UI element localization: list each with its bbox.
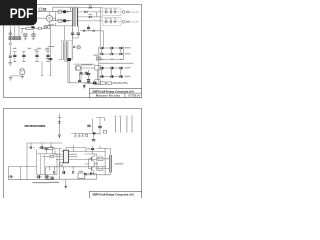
capacitor C42 (dark blob on bus): [93, 132, 95, 134]
wire (dashed separator in output stage): [117, 9, 119, 25]
node labels (diode designators): [89, 5, 92, 15]
connector J4 (header pins, four vertical stubs): [116, 117, 133, 132]
diode D1 (output rectifier): [89, 6, 92, 9]
node label (IC designator text): [81, 64, 92, 65]
node label OUT +35V: [131, 12, 139, 14]
capacitor C43 (dark pair below bus): [92, 140, 95, 141]
resistor R10 (small box below bridge): [48, 26, 50, 29]
capacitor C18 (dark plates near top right): [98, 118, 102, 136]
relay K3 (small outlined box): [95, 80, 101, 85]
resistor R8 (box on IC input wire): [48, 148, 53, 150]
wire (totem pole rails): [85, 146, 111, 175]
capacitor CX2 (X2 film cap): [32, 34, 35, 37]
node marks (lower arm): [67, 20, 69, 22]
capacitor bank row 2 (electrolytics): [100, 53, 122, 55]
relay K1 (dark block at bus bottom): [67, 58, 71, 61]
capacitor C31 (dark blob lower left): [84, 174, 87, 175]
fuse F1: [26, 27, 33, 29]
wire (output cap bank buses): [99, 47, 134, 83]
capacitor C39 (dark pair, bleeder row): [93, 82, 97, 85]
IC U3 (driver IC, DIP package): [62, 150, 71, 163]
resistor R6 (small box): [103, 131, 106, 134]
node label (row 1 values): [124, 47, 130, 48]
capacitor C11 (dark): [87, 80, 90, 81]
node label (row 2 values): [124, 53, 130, 54]
junction (mid bus dots): [54, 165, 74, 168]
capacitor C32 (dark pair under IC): [79, 73, 82, 74]
transformer T1 (main power transformer): [72, 8, 79, 27]
wire (inner verticals of module): [41, 154, 45, 175]
diode D4 (input drop): [58, 114, 60, 135]
wire (bleeder row above title block): [85, 82, 129, 84]
capacitor C14 (bulk electrolytic): [13, 52, 16, 62]
capacitor C17 (bulk electrolytic): [46, 52, 49, 62]
wire (aux vertical feed): [41, 26, 95, 75]
capacitor C10 (dark): [87, 73, 90, 74]
transistor Q2 (totem pole NPN): [89, 156, 95, 162]
node marks (upper arm): [67, 11, 69, 13]
node labels (values under input filter): [13, 48, 49, 49]
capacitor C4 (upper arm electrolytic, dark): [63, 10, 67, 13]
capacitor C1 (left column): [9, 30, 13, 42]
capacitor bank row 4 (electrolytics, dark): [100, 67, 122, 70]
junction (totem node dots): [96, 148, 105, 169]
wire (mains feed): [21, 28, 46, 34]
resistor R1 (discharge, small box): [38, 27, 41, 29]
resistor row (small marks row 3): [101, 59, 122, 60]
inductor L1 (EMI choke, dark body): [31, 26, 34, 28]
wire (aux feed lines): [49, 23, 73, 59]
node label (row 4 values): [124, 67, 130, 68]
capacitor C36 (on feedback rail): [93, 30, 94, 32]
node label (aux label): [48, 46, 54, 47]
capacitor C13 (dark): [83, 86, 86, 87]
node label OUT -35V: [131, 22, 139, 24]
PDF badge: [0, 0, 149, 198]
regulator U2 (with mounting circle): [20, 68, 24, 74]
node label (gate drive caption): [115, 163, 123, 164]
connector pins (bus pin circles): [75, 134, 88, 137]
title block page 2: [89, 192, 141, 201]
diode D5: [88, 172, 97, 175]
wire (AC input drops from badge): [11, 26, 20, 37]
wire (secondary rails): [79, 8, 103, 47]
ground (regulator left): [9, 78, 13, 80]
ground (under X2 caps): [24, 37, 35, 40]
node labels (bleeder row values): [113, 82, 126, 83]
resistor R7 (box on lower rail): [78, 173, 85, 178]
capacitor C22 (dark, second row): [36, 175, 43, 178]
wire (bridge connections): [37, 12, 55, 29]
capacitor C12 (dark): [78, 80, 81, 81]
capacitor CX1 (X2 film cap): [24, 34, 27, 37]
ground (arrow under diode): [58, 135, 61, 139]
wire (IC right connections): [66, 145, 105, 159]
wire (bulk cap top ticks): [13, 52, 49, 62]
relay K2 (small outlined box): [95, 65, 101, 70]
wire (control section): [68, 61, 104, 88]
node label (aux feed value): [46, 58, 48, 59]
node label (row 5 values): [124, 76, 130, 77]
node label (cap value): [87, 148, 90, 149]
page 2 sheet frame: [4, 109, 142, 204]
transistor Q3 (totem pole PNP): [89, 166, 95, 172]
resistor R11 (upper arm box): [58, 10, 62, 13]
node label (left grid caption): [32, 182, 49, 183]
capacitor C37 (dark standing blob): [87, 27, 90, 28]
wire (left grid top): [27, 143, 62, 180]
resistor R9 (box on IC pin wire): [50, 155, 53, 157]
node label (aux text): [48, 24, 54, 25]
diode D3 (output rectifier): [84, 11, 87, 13]
transistor Q1 (aux switch): [77, 46, 81, 50]
capacitor C6 (lower arm electrolytic, dark): [63, 19, 67, 22]
capacitor C15 (bulk electrolytic): [22, 52, 25, 62]
gate resistor box RG1: [98, 157, 103, 161]
IC U1 (supervisor, circle body): [75, 66, 81, 71]
wire (feedback rail): [80, 25, 103, 49]
wire (IC left connections): [42, 149, 62, 180]
wire (left lower bus): [8, 167, 54, 180]
capacitor C9: [73, 46, 77, 47]
title block page 1: [89, 89, 141, 98]
shield box (feedback module outline): [37, 154, 57, 175]
output module B (filter block): [103, 18, 122, 26]
node label (T2 bottom text): [64, 61, 68, 62]
capacitor C41 (dark plates on aux feed): [49, 58, 53, 59]
resistor R13 (box under IC): [60, 163, 63, 166]
capacitor C35 (on feedback rail): [84, 30, 85, 32]
capacitor C20 (dark): [39, 146, 46, 149]
capacitor C27: [72, 171, 73, 174]
wire (lower rail page 2): [46, 167, 97, 184]
capacitor C34 (X-box top of control): [96, 57, 101, 60]
svg-text:PDF: PDF: [10, 6, 34, 22]
bridge rectifier BR1: [46, 15, 52, 21]
node label (above resistor box): [79, 171, 83, 172]
capacitor C21: [48, 146, 55, 149]
capacitor C29 (dark plates on IC input): [44, 148, 47, 149]
wire (primary rails): [37, 7, 78, 21]
node label (supply caption): [49, 182, 59, 183]
node labels (cap values): [34, 49, 49, 50]
capacitor bank row 5 (electrolytics, dark): [100, 75, 122, 78]
ground (page 2 center, arrow): [64, 184, 67, 189]
wire (mid bus page 2): [46, 167, 107, 171]
connector J3 (output pins): [126, 21, 130, 23]
capacitor C2 (left column): [9, 43, 12, 63]
node label (control top text): [93, 55, 98, 56]
transformer T2 (driver transformer): [62, 41, 73, 60]
capacitor C33 (dark pair under IC): [85, 73, 88, 74]
capacitor C26 (dark): [63, 171, 65, 174]
page 1 sheet frame: [4, 5, 142, 98]
LED LD2: [121, 20, 125, 23]
capacitor C40 (X-box below bridge): [44, 26, 47, 29]
capacitor bank row 1 (electrolytics): [100, 47, 122, 49]
capacitor C38 (dark, bleeder row): [87, 82, 90, 83]
wire (regulator leads): [11, 74, 23, 77]
capacitor C28 (dark blob right of row): [51, 177, 54, 178]
transformer T3 (gate drive transformer winding): [110, 155, 112, 173]
capacitor C30 (driver bypass, dark): [91, 146, 94, 154]
ground (left column): [8, 63, 12, 65]
wire (control top bus): [58, 118, 105, 140]
resistor R3: [107, 82, 112, 84]
node labels (pin top ticks): [114, 115, 133, 118]
connector J1 (AC terminal block): [9, 37, 21, 40]
output module A (filter block): [103, 8, 122, 16]
capacitor C44 (dark pair left of riser): [87, 125, 90, 126]
gate resistor box RG2: [98, 167, 103, 171]
connector J2 (output pins): [126, 11, 130, 13]
capacitor C19: [28, 146, 34, 149]
capacitor C16 (bulk electrolytic): [35, 52, 38, 62]
LED LD1: [121, 11, 125, 14]
capacitor C23 (dark, second row): [44, 175, 51, 178]
resistor R2: [100, 82, 105, 84]
resistor R12 (lower arm box): [58, 19, 62, 22]
ground (regulator right): [20, 77, 24, 79]
capacitor C25: [54, 171, 55, 179]
capacitor C24 (second row): [8, 175, 14, 178]
node label CIRCUITO DE CONTROL: [24, 125, 46, 128]
diode D2 (output rectifier): [89, 16, 92, 19]
capacitor C8 (snubber, dark plates): [71, 27, 80, 38]
capacitor C3 (snubber near bridge): [39, 8, 46, 11]
